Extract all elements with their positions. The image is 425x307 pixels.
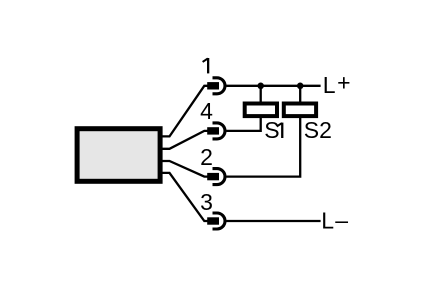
junction dot A [257, 83, 264, 90]
label pin 1 [203, 58, 209, 73]
wire L+ rail [227, 85, 321, 87]
junction dot B [297, 83, 304, 90]
svg-text:–: – [335, 207, 348, 233]
device (sensor body) [77, 129, 160, 182]
svg-text:L: L [323, 72, 336, 98]
wire drop to S1 [260, 86, 262, 102]
load S2 [284, 104, 316, 117]
svg-text:S: S [264, 117, 279, 143]
wire pin2 lead [161, 161, 208, 177]
svg-text:4: 4 [200, 98, 213, 124]
connector pin 4 [207, 123, 225, 139]
load S1 [245, 104, 277, 117]
wire pin3 lead [161, 173, 208, 221]
connector pin 2 [207, 169, 225, 185]
svg-text:S2: S2 [304, 117, 332, 143]
wire S2 to pin2 [227, 118, 301, 177]
wire pin4 lead [161, 131, 208, 149]
svg-text:2: 2 [200, 144, 213, 170]
wire pin1 lead [161, 86, 208, 137]
svg-text:L: L [321, 208, 334, 234]
connector pin 3 [207, 213, 225, 229]
wire drop to S2 [299, 86, 301, 102]
svg-text:+: + [337, 69, 350, 95]
wire pin4 to S1 [227, 118, 261, 131]
connector pin 1 [207, 78, 225, 94]
svg-text:3: 3 [200, 189, 213, 215]
wire L- rail [227, 220, 321, 222]
